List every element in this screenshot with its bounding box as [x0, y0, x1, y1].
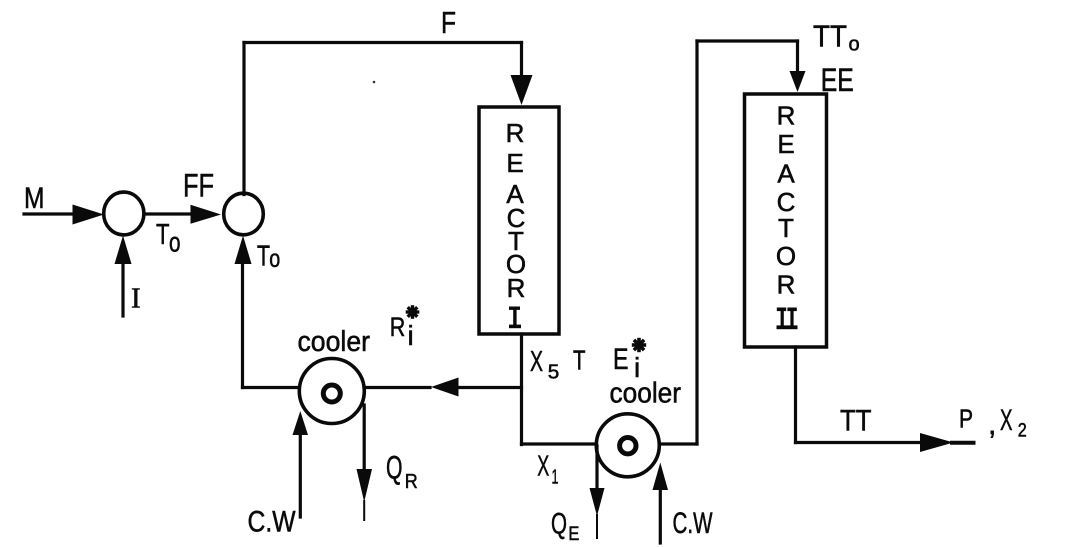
svg-text:E: E	[777, 129, 794, 159]
cooler 2 body	[596, 414, 659, 477]
wire reactor II drain	[794, 347, 797, 443]
svg-text:,: ,	[988, 408, 996, 441]
svg-text:Q: Q	[386, 450, 403, 486]
svg-text:o: o	[269, 245, 280, 273]
asterisk of Ri*	[406, 305, 420, 319]
wire FF line mixer1 to mixer2	[145, 212, 195, 215]
svg-text:X: X	[530, 346, 543, 378]
svg-text:R: R	[405, 471, 418, 493]
wire top line F	[244, 41, 522, 44]
svg-text:C.W: C.W	[248, 506, 297, 539]
svg-text:i: i	[408, 320, 414, 351]
wire TTo down into reactor II	[796, 41, 799, 72]
wire I feed vertical	[121, 262, 124, 316]
reactor I letter I (serif)	[509, 307, 521, 329]
wire reactor I drain vertical	[520, 334, 523, 445]
arrowhead QR down	[357, 469, 373, 502]
svg-text:M: M	[24, 182, 45, 215]
arrowhead TTo into reactor II top	[790, 71, 806, 92]
label Ei*	[613, 343, 640, 383]
arrowhead F into reactor I top	[511, 75, 533, 105]
svg-text:E: E	[568, 524, 579, 545]
wire QE tail below arrow	[596, 515, 598, 538]
arrowhead CW 2 up	[653, 463, 669, 491]
arrowhead CW 1 up into cooler	[293, 411, 309, 435]
reactor II box	[745, 94, 827, 347]
speck (scan artifact)	[373, 81, 376, 84]
mixer node 1	[104, 192, 144, 235]
svg-text:T: T	[778, 213, 794, 243]
wire cooler 2 right horizontal	[660, 442, 698, 445]
wire QR tail below arrow	[363, 501, 365, 520]
svg-text:1: 1	[552, 467, 559, 489]
cooler 2 inner circle	[620, 438, 636, 454]
asterisk of Ei*	[632, 338, 646, 352]
wire QR vertical	[363, 405, 366, 470]
svg-text:T: T	[156, 219, 170, 251]
reactor II label	[776, 101, 796, 300]
svg-text:X: X	[537, 451, 549, 483]
wire recycle horizontal to cooler 1	[457, 386, 522, 389]
svg-text:cooler: cooler	[298, 326, 371, 358]
reactor I box	[479, 107, 559, 334]
arrowhead recycle into mixer 2 bottom	[235, 236, 252, 265]
svg-text:o: o	[169, 227, 181, 258]
svg-text:Q: Q	[551, 508, 567, 541]
svg-text:R: R	[507, 273, 526, 303]
arrowhead QE down	[590, 488, 605, 516]
wire recycle horizontal cooler1 right segment	[364, 386, 430, 389]
arrowhead FF into mixer 2	[191, 205, 222, 224]
svg-text:TT: TT	[840, 405, 872, 438]
svg-text:2: 2	[1018, 420, 1027, 441]
mixer node 2	[224, 193, 264, 235]
svg-text:I: I	[131, 283, 141, 315]
svg-text:R: R	[777, 270, 796, 300]
svg-text:C.W: C.W	[673, 507, 713, 540]
label Ri*	[390, 312, 414, 351]
svg-text:R: R	[390, 312, 406, 342]
svg-text:E: E	[506, 148, 523, 178]
svg-text:5: 5	[548, 361, 560, 384]
wire QE vertical	[595, 446, 598, 489]
svg-text:FF: FF	[183, 168, 214, 204]
wire mixer2 recycle vertical (from cooler up)	[241, 263, 244, 388]
svg-text:T: T	[257, 241, 270, 273]
cooler 1 inner circle	[323, 385, 340, 402]
wire M feed line	[24, 212, 76, 215]
arrowhead product right	[920, 433, 954, 452]
reactor II numeral II (serif)	[777, 308, 798, 330]
arrowhead recycle pointing left	[431, 378, 459, 397]
svg-text:F: F	[441, 5, 456, 40]
svg-text:cooler: cooler	[610, 378, 682, 410]
reactor I label	[506, 118, 527, 303]
wire mixer2 output up	[242, 43, 245, 195]
svg-text:X: X	[1000, 404, 1013, 437]
svg-text:R: R	[506, 118, 525, 148]
wire F down into reactor I	[520, 43, 523, 78]
wire product tail beyond arrow	[952, 441, 974, 445]
svg-text:E: E	[613, 343, 629, 376]
wire vertical riser to reactor II	[695, 41, 698, 444]
wire recycle horizontal cooler1 left segment	[243, 386, 300, 389]
wire top line to reactor II	[697, 39, 798, 42]
cooler 1 body	[299, 359, 364, 424]
svg-text:o: o	[849, 34, 860, 56]
svg-text:O: O	[776, 241, 796, 271]
arrowhead M into mixer 1	[73, 205, 105, 225]
wire product line TT	[796, 441, 923, 444]
svg-text:A: A	[777, 159, 795, 189]
svg-text:T: T	[573, 345, 586, 376]
svg-text:P: P	[959, 404, 973, 434]
arrowhead I into mixer 1 bottom	[115, 236, 132, 265]
wire CW 2 vertical	[659, 488, 662, 543]
wire CW 1 vertical	[299, 434, 302, 517]
wire lower horizontal reactor I to cooler 2	[522, 442, 597, 445]
svg-text:R: R	[777, 101, 796, 131]
svg-text:TT: TT	[813, 19, 847, 54]
